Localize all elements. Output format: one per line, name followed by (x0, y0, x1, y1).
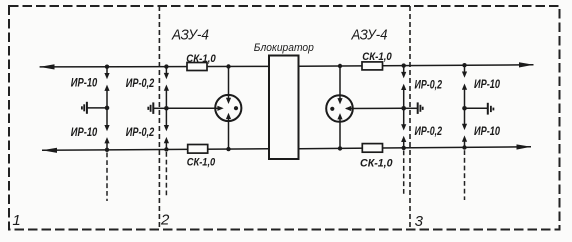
wire: mid horizontal from right tube to ИР-0,2 right (346, 107, 403, 109)
svg-text:2: 2 (160, 212, 170, 229)
wire: rise from bottom wire into left tube (228, 117, 230, 149)
section divider line 2 (158, 6, 160, 230)
node: top wire / ИР-10 left junction (105, 65, 109, 69)
svg-text:ИР-0,2: ИР-0,2 (415, 79, 443, 91)
wire: bottom line, right segment with right arrow (299, 144, 531, 149)
svg-text:ИР-0,2: ИР-0,2 (126, 127, 155, 139)
svg-text:АЗУ-4: АЗУ-4 (171, 27, 209, 43)
arrester ИР-0,2 left, top gap (164, 67, 169, 109)
dashed stub below ИР-0,2 right (403, 151, 405, 197)
ground of ИР-10 left (82, 102, 107, 114)
node: top wire / ИР-10 right junction (462, 63, 466, 67)
node: mid / ИР-10 right junction (462, 106, 467, 111)
node: bottom wire / left tube junction (226, 147, 230, 151)
svg-text:ИР-0,2: ИР-0,2 (415, 126, 443, 138)
arrester ИР-10 left, bottom gap (104, 108, 109, 150)
node: mid / ИР-0,2 right junction (401, 106, 406, 111)
node: mid / ИР-0,2 left junction (164, 106, 169, 111)
arrester ИР-0,2 left, bottom gap (164, 108, 169, 149)
node: bottom wire / ИР-10 left junction (105, 148, 109, 152)
wire: rise from bottom wire into right tube (339, 118, 341, 149)
section divider line 3 (409, 6, 411, 230)
svg-text:ИР-10: ИР-10 (474, 79, 500, 91)
ground of ИР-0,2 right (404, 102, 423, 114)
svg-text:ИР-0,2: ИР-0,2 (126, 78, 155, 90)
electrode arrow from right inside right tube (345, 106, 353, 111)
node: top wire / left tube junction (226, 64, 230, 68)
gas arrester tube right (circle) (326, 95, 353, 122)
dashed stub below ИР-0,2 left (165, 152, 167, 198)
electrode arrow from top inside left tube (226, 95, 231, 104)
wire: bottom line, left segment with left arrow (42, 148, 269, 153)
electrode dot inside right tube (330, 107, 334, 111)
electrode dot inside left tube (234, 106, 238, 110)
svg-text:ИР-10: ИР-10 (71, 127, 98, 139)
arrester ИР-10 left, top gap (104, 67, 109, 108)
dashed stub below ИР-10 right (464, 150, 466, 200)
node: bottom wire / ИР-10 right junction (462, 145, 466, 149)
wire: drop from top wire into left tube (228, 67, 230, 100)
svg-text:СК-1,0: СК-1,0 (186, 53, 216, 65)
ground of ИР-0,2 left (148, 102, 166, 114)
fuse СК-1,0 top-right (362, 62, 383, 70)
wire: top line, right segment with right arrow (299, 62, 534, 67)
node: bottom wire / ИР-0,2 right junction (402, 146, 406, 150)
svg-text:1: 1 (12, 212, 20, 229)
node: top wire / ИР-0,2 right junction (402, 63, 406, 67)
node: top wire / right tube junction (338, 64, 342, 68)
svg-text:СК-1,0: СК-1,0 (362, 51, 392, 63)
blocker unit Блокиратор (269, 56, 299, 160)
svg-text:СК-1,0: СК-1,0 (187, 157, 216, 169)
wire: drop from top wire into right tube (339, 66, 341, 100)
arrester ИР-0,2 right, bottom gap (401, 108, 406, 148)
fuse СК-1,0 bottom-right (362, 144, 382, 153)
wire: top line, left segment with left arrow (40, 64, 269, 69)
node: bottom wire / ИР-0,2 left junction (164, 147, 168, 151)
fuse СК-1,0 top-left (187, 63, 207, 71)
svg-text:ИР-10: ИР-10 (71, 77, 98, 89)
node: top wire / ИР-0,2 left junction (164, 64, 168, 68)
arrester ИР-10 right, bottom gap (462, 108, 467, 147)
svg-text:Блокиратор: Блокиратор (254, 42, 314, 54)
node: mid / ИР-10 left junction (105, 106, 110, 111)
electrode arrow from bottom inside right tube (337, 113, 342, 121)
wire: mid horizontal from ИР-0,2 left to arrester tube (166, 107, 218, 109)
electrode arrow from top inside right tube (337, 96, 342, 105)
gas arrester tube left (circle) (215, 95, 241, 121)
svg-text:3: 3 (415, 213, 424, 230)
ground of ИР-10 right (465, 103, 494, 115)
electrode arrow from bottom inside left tube (226, 113, 231, 121)
dashed stub below ИР-10 left (106, 153, 108, 202)
arrester ИР-10 right, top gap (462, 65, 467, 108)
svg-text:СК-1,0: СК-1,0 (360, 157, 393, 169)
fuse СК-1,0 bottom-left (188, 145, 208, 154)
arrester ИР-0,2 right, top gap (401, 66, 406, 109)
svg-text:АЗУ-4: АЗУ-4 (351, 28, 388, 44)
svg-text:ИР-10: ИР-10 (474, 126, 500, 138)
electrode arrow from left inside left tube (216, 106, 224, 111)
node: bottom wire / right tube junction (338, 146, 342, 150)
